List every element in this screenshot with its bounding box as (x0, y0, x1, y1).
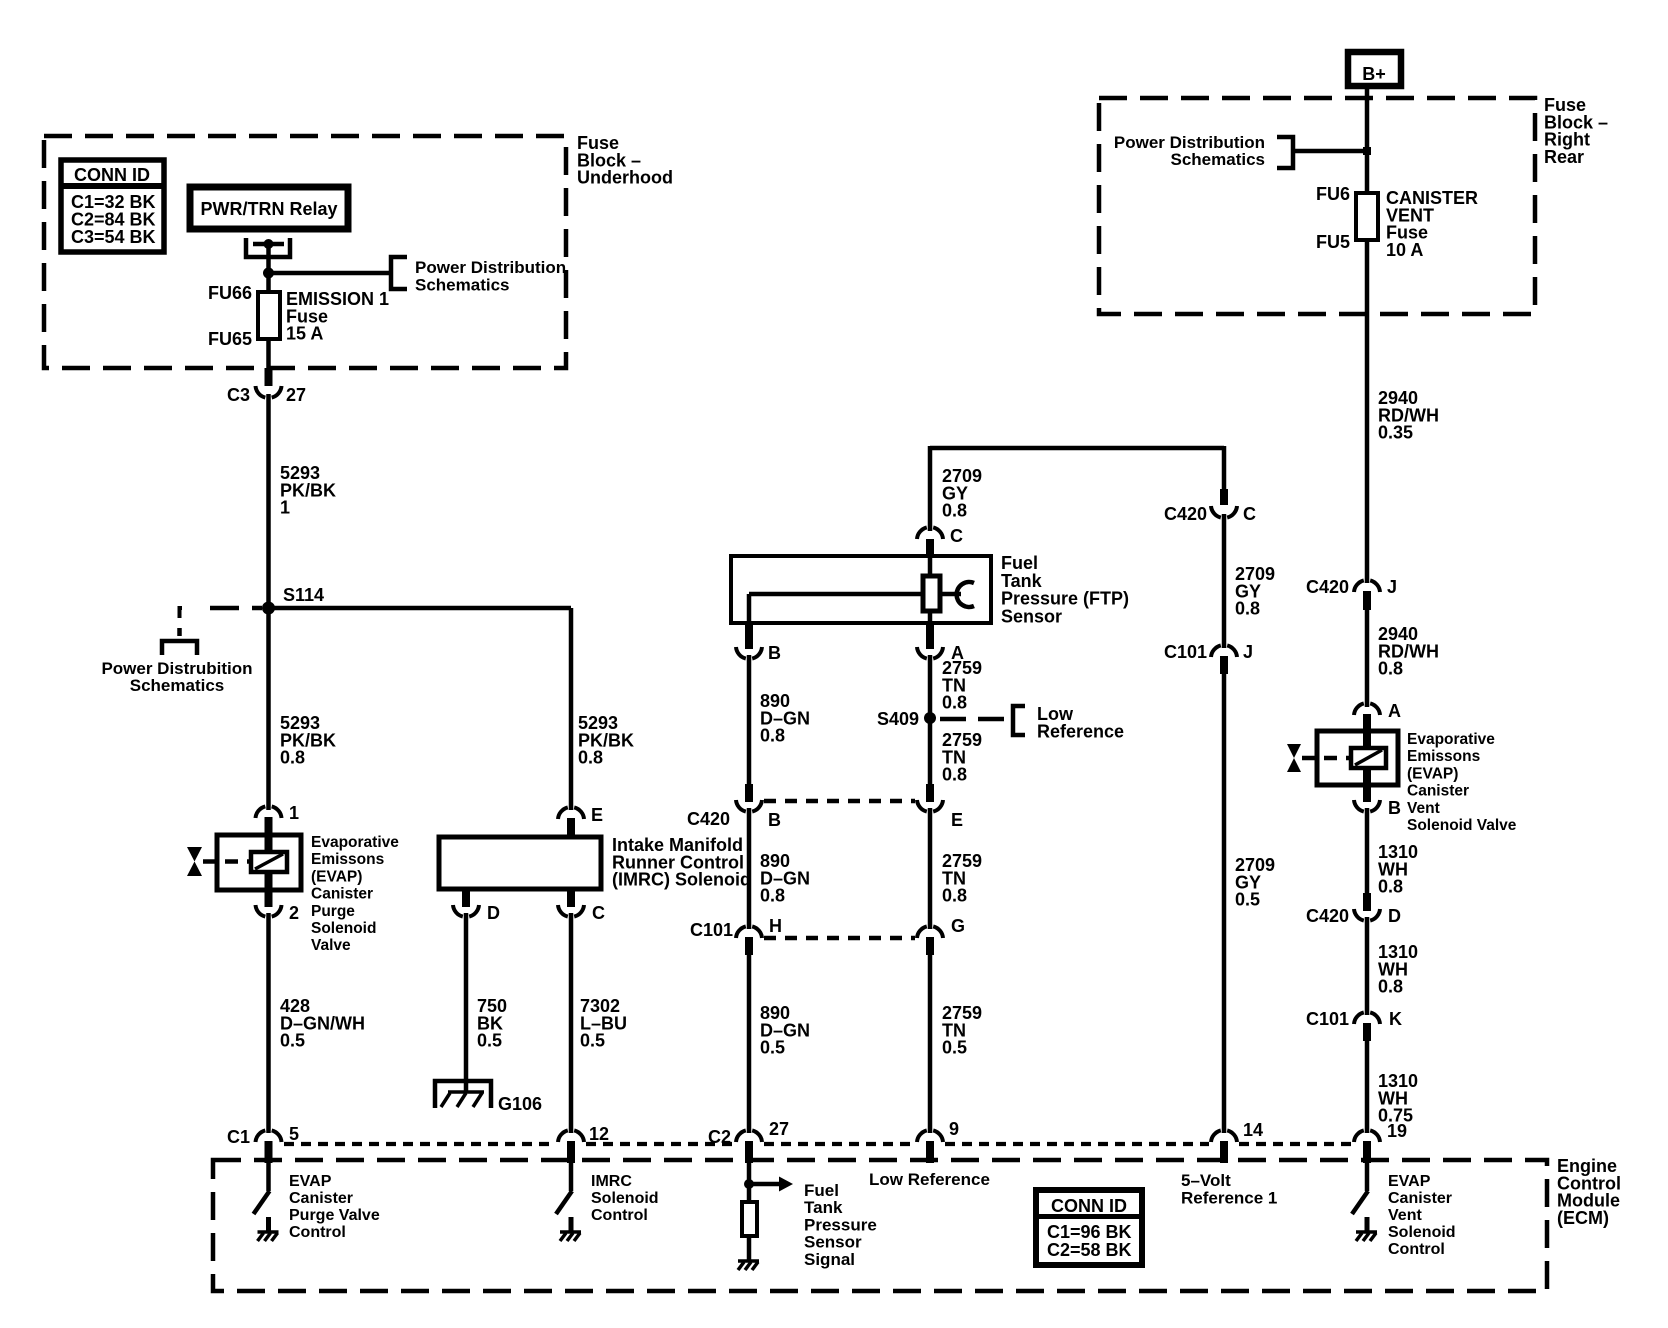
svg-text:0.8: 0.8 (280, 748, 305, 768)
svg-text:J: J (1387, 577, 1397, 597)
ECM driver switch: IMRC solenoid control (569, 1163, 574, 1191)
fuse FU65/FU66: EMISSION 1 Fuse 15 A (258, 292, 280, 339)
connector pin D (IMRC solenoid) (462, 889, 470, 907)
svg-text:0.5: 0.5 (580, 1031, 605, 1051)
in-line connector C101 G (917, 926, 943, 938)
svg-text:B: B (1388, 798, 1401, 818)
svg-text:S409: S409 (877, 709, 919, 729)
svg-text:IMRC: IMRC (591, 1173, 632, 1190)
connector pin 1 (EVAP purge valve) (256, 806, 282, 818)
wire: C420 B to C101 H (747, 808, 752, 929)
svg-text:Power Distribution: Power Distribution (415, 258, 566, 277)
wire: B+ into fuse block (1365, 89, 1370, 193)
svg-text:C1=96 BK: C1=96 BK (1047, 1222, 1132, 1242)
svg-text:27: 27 (769, 1119, 789, 1139)
ground (FTP signal) (738, 1259, 759, 1263)
svg-text:FU5: FU5 (1316, 232, 1350, 252)
wire: junction to power distribution bracket (269, 271, 392, 276)
solenoid L1: EVAP canister purge solenoid valve (217, 835, 301, 890)
connector pin 2 (EVAP purge valve) (265, 890, 273, 907)
svg-text:Low Reference: Low Reference (869, 1170, 990, 1189)
wire: pin B down to C420 B (747, 655, 752, 786)
splice S114 (262, 602, 275, 615)
svg-text:C2=58 BK: C2=58 BK (1047, 1240, 1132, 1260)
svg-text:G106: G106 (498, 1094, 542, 1114)
CONN ID table (underhood) (61, 160, 164, 252)
svg-text:Canister: Canister (289, 1190, 353, 1207)
svg-text:C1: C1 (227, 1127, 250, 1147)
svg-text:1: 1 (280, 498, 290, 518)
svg-text:C101: C101 (1306, 1009, 1349, 1029)
svg-text:5: 5 (289, 1124, 299, 1144)
svg-text:(EVAP): (EVAP) (1407, 765, 1458, 782)
svg-text:0.8: 0.8 (1235, 599, 1260, 619)
svg-text:0.8: 0.8 (1378, 877, 1403, 897)
wire: pin A to S409 (928, 655, 933, 718)
wire: S114 branch to IMRC (right then down) (269, 606, 572, 611)
svg-text:C: C (950, 526, 963, 546)
svg-text:Evaporative: Evaporative (1407, 731, 1495, 748)
svg-text:0.8: 0.8 (942, 765, 967, 785)
svg-text:0.8: 0.8 (942, 501, 967, 521)
svg-text:(ECM): (ECM) (1557, 1208, 1609, 1228)
solenoid L3: EVAP canister vent solenoid valve (1317, 731, 1398, 785)
svg-text:C: C (1243, 504, 1256, 524)
svg-text:Solenoid: Solenoid (311, 920, 376, 937)
connector pin 19 (ECM) (1354, 1130, 1380, 1142)
svg-text:Schematics: Schematics (1171, 150, 1266, 169)
in-line connector C420 C (1220, 489, 1228, 505)
svg-text:B: B (768, 810, 781, 830)
svg-text:C3=54 BK: C3=54 BK (71, 227, 156, 247)
svg-text:27: 27 (286, 385, 306, 405)
wire: top rail to 5-volt reference (930, 446, 1224, 451)
wire: fuse to C3 connector (266, 339, 271, 371)
svg-text:Underhood: Underhood (577, 168, 673, 188)
svg-text:Sensor: Sensor (1001, 606, 1062, 626)
in-line connector C420 B (745, 784, 753, 802)
dashed connector line C101 (H-G row) (764, 936, 915, 941)
connector C2 pin 27 (ECM) (736, 1130, 762, 1142)
connector pin C (FTP sensor) (917, 527, 943, 539)
ECM driver switch: EVAP canister vent solenoid control (1365, 1163, 1370, 1191)
svg-text:C101: C101 (1164, 642, 1207, 662)
svg-text:CONN ID: CONN ID (1051, 1196, 1127, 1216)
dashed wire: S114 to power distribution bracket (180, 608, 183, 618)
relay contact terminal symbol under PWR/TRN relay (246, 238, 290, 257)
svg-text:Rear: Rear (1544, 147, 1584, 167)
svg-text:J: J (1243, 642, 1253, 662)
svg-text:Valve: Valve (311, 937, 351, 954)
svg-text:Purge: Purge (311, 903, 355, 920)
svg-text:E: E (591, 805, 603, 825)
connector pin A (FTP sensor) (926, 623, 934, 649)
svg-text:15 A: 15 A (286, 324, 323, 344)
relay K: PWR/TRN Relay box (190, 187, 348, 229)
svg-text:D: D (487, 903, 500, 923)
svg-text:(IMRC) Solenoid: (IMRC) Solenoid (612, 870, 751, 890)
svg-text:1: 1 (289, 803, 299, 823)
FTP sensor internal resistor wire (749, 592, 923, 597)
svg-text:0.8: 0.8 (942, 886, 967, 906)
svg-text:K: K (1389, 1009, 1402, 1029)
wire: pin C to ECM C1 pin 12 (569, 913, 574, 1133)
svg-text:C420: C420 (1164, 504, 1207, 524)
svg-text:PWR/TRN Relay: PWR/TRN Relay (200, 199, 337, 219)
connector C3 pin 27 (265, 368, 273, 386)
wire: bracket to B+ feed wire (1293, 149, 1367, 154)
svg-text:Signal: Signal (804, 1250, 855, 1269)
wire: C420 J to vent valve pin A (1365, 609, 1370, 707)
dashed connector line C420 (B-E row) (764, 799, 915, 804)
connector pin E (IMRC solenoid) (558, 807, 584, 819)
svg-text:C: C (592, 903, 605, 923)
fuse FU5/FU6: CANISTER VENT Fuse 10 A (1356, 193, 1378, 240)
svg-text:12: 12 (589, 1124, 609, 1144)
svg-text:G: G (951, 916, 965, 936)
svg-text:EVAP: EVAP (289, 1173, 332, 1190)
svg-text:Solenoid Valve: Solenoid Valve (1407, 817, 1517, 834)
svg-text:Emissons: Emissons (311, 851, 384, 868)
svg-text:Vent: Vent (1407, 800, 1440, 817)
svg-text:CONN ID: CONN ID (74, 165, 150, 185)
wire: C101 G to ECM pin 9 (928, 953, 933, 1133)
ground G106 (435, 1081, 491, 1108)
solenoid L2: IMRC solenoid box (439, 837, 601, 889)
wire: fuse to C420 J (1365, 240, 1370, 583)
svg-text:B: B (768, 643, 781, 663)
CONN ID table (ECM) (1036, 1190, 1142, 1265)
wire: C3 to S114 (266, 394, 271, 608)
svg-text:Solenoid: Solenoid (591, 1190, 659, 1207)
svg-text:Schematics: Schematics (415, 275, 510, 294)
svg-text:0.8: 0.8 (1378, 659, 1403, 679)
svg-text:Fuel: Fuel (804, 1181, 839, 1200)
solenoid coil element (EVAP vent) (1363, 732, 1371, 748)
wire: relay to junction (266, 244, 271, 273)
connector C1 pin 5 (ECM) (256, 1130, 282, 1142)
connector pin B (EVAP vent valve) (1363, 785, 1371, 802)
svg-text:0.5: 0.5 (477, 1031, 502, 1051)
svg-text:0.35: 0.35 (1378, 423, 1413, 443)
svg-text:9: 9 (949, 1119, 959, 1139)
svg-text:0.8: 0.8 (578, 748, 603, 768)
svg-text:C420: C420 (687, 809, 730, 829)
svg-text:Control: Control (289, 1224, 346, 1241)
svg-text:Reference 1: Reference 1 (1181, 1189, 1277, 1208)
wire: pin D to ground G106 (464, 913, 469, 1093)
svg-text:Sensor: Sensor (804, 1233, 862, 1252)
svg-text:0.5: 0.5 (760, 1038, 785, 1058)
svg-text:Reference: Reference (1037, 721, 1124, 741)
svg-text:0.8: 0.8 (760, 726, 785, 746)
svg-text:Emissons: Emissons (1407, 748, 1480, 765)
in-line connector C101 K (vent) (1354, 1012, 1380, 1024)
bracket: power distribution schematics (right rear) (1277, 137, 1293, 168)
bracket: power distribution schematics (underhood) (391, 257, 407, 289)
valve symbol (bowtie) EVAP vent (1287, 744, 1301, 772)
wire: C420 D to C101 K (1365, 917, 1370, 1015)
wire: S114 down to EVAP purge valve (266, 608, 271, 810)
svg-text:Canister: Canister (1407, 783, 1469, 800)
FTP sensor internal wiper element (928, 557, 933, 577)
svg-text:Evaporative: Evaporative (311, 834, 399, 851)
svg-text:5–Volt: 5–Volt (1181, 1171, 1231, 1190)
in-line connector C420 E (926, 784, 934, 802)
power feed B+ (1348, 52, 1401, 86)
in-line connector C420 D (vent) (1363, 893, 1371, 911)
connector pin 12 (ECM) (558, 1130, 584, 1142)
svg-text:D: D (1388, 906, 1401, 926)
connector pin 9 (ECM) (917, 1130, 943, 1142)
svg-text:EVAP: EVAP (1388, 1173, 1431, 1190)
svg-text:Pressure: Pressure (804, 1215, 877, 1234)
svg-text:E: E (951, 810, 963, 830)
wire: C101 H to ECM C2 pin 27 (747, 953, 752, 1133)
svg-text:0.8: 0.8 (942, 693, 967, 713)
fuse block - right rear (dashed enclosure) (1099, 98, 1535, 314)
svg-text:Purge Valve: Purge Valve (289, 1207, 380, 1224)
svg-text:14: 14 (1243, 1120, 1263, 1140)
wire: S409 to C420 E (928, 718, 933, 786)
in-line connector C101 J (1211, 645, 1237, 657)
solenoid coil element (EVAP purge) (265, 836, 273, 852)
svg-text:2: 2 (289, 903, 299, 923)
svg-text:C420: C420 (1306, 577, 1349, 597)
wire: C420 E to C101 G (928, 808, 933, 929)
svg-text:FU6: FU6 (1316, 184, 1350, 204)
svg-text:Vent: Vent (1388, 1207, 1422, 1224)
svg-text:0.5: 0.5 (942, 1038, 967, 1058)
svg-text:10 A: 10 A (1386, 240, 1423, 260)
fuse block - underhood (dashed enclosure) (44, 136, 566, 368)
svg-text:Schematics: Schematics (130, 676, 225, 695)
svg-text:C3: C3 (227, 385, 250, 405)
connector pin C (IMRC solenoid) (567, 889, 575, 907)
wire: junction to fuse FU66 (266, 273, 271, 292)
bracket: low reference (S409) (1013, 706, 1025, 735)
wire: C420 C to C101 J (1222, 514, 1227, 648)
sensor: Fuel Tank Pressure (FTP) sensor box (731, 556, 991, 623)
ECM input: fuel tank pressure sensor signal (747, 1163, 752, 1202)
svg-text:FU65: FU65 (208, 329, 252, 349)
in-line connector C420 J (vent) (1354, 580, 1380, 592)
svg-text:0.5: 0.5 (1235, 890, 1260, 910)
svg-text:C420: C420 (1306, 906, 1349, 926)
in-line connector C101 H (736, 926, 762, 938)
dashed link valve to coil (203, 859, 251, 864)
svg-text:0.5: 0.5 (280, 1031, 305, 1051)
svg-text:Canister: Canister (311, 886, 373, 903)
svg-text:H: H (769, 916, 782, 936)
svg-text:(EVAP): (EVAP) (311, 868, 362, 885)
junction (to power distribution) (263, 268, 274, 279)
wire: C101 K to ECM pin 19 (1365, 1039, 1370, 1133)
connector pin A (EVAP vent valve) (1354, 703, 1380, 715)
svg-text:Control: Control (591, 1207, 648, 1224)
svg-text:0.8: 0.8 (760, 886, 785, 906)
svg-text:C101: C101 (690, 920, 733, 940)
svg-text:0.8: 0.8 (1378, 977, 1403, 997)
svg-text:Solenoid: Solenoid (1388, 1224, 1456, 1241)
wire: C101 J to ECM pin 14 (1222, 673, 1227, 1133)
ECM driver switch: EVAP canister purge valve control (266, 1163, 271, 1191)
ECM connector row dotted line (284, 1142, 556, 1146)
wire: pin 2 to ECM C1 pin 5 (266, 913, 271, 1133)
svg-text:Canister: Canister (1388, 1190, 1452, 1207)
engine control module (dashed enclosure) (213, 1160, 1547, 1291)
splice S409 (924, 712, 936, 724)
connector pin B (FTP sensor) (745, 623, 753, 649)
svg-text:S114: S114 (283, 585, 324, 605)
svg-text:FU66: FU66 (208, 283, 252, 303)
svg-text:19: 19 (1387, 1121, 1407, 1141)
connector pin 14 (ECM) (1211, 1130, 1237, 1142)
svg-text:Control: Control (1388, 1241, 1445, 1258)
svg-text:A: A (1388, 701, 1401, 721)
svg-text:B+: B+ (1362, 64, 1386, 84)
svg-text:C2: C2 (708, 1127, 731, 1147)
dashed wire: S409 to low reference bracket (940, 717, 1009, 722)
dashed link valve to coil (vent) (1302, 756, 1351, 761)
bracket: power distrubition schematics (S114) (162, 641, 197, 655)
svg-text:Tank: Tank (804, 1198, 843, 1217)
valve symbol (bowtie) EVAP purge (187, 847, 202, 876)
resistor (FTP signal pull) (742, 1202, 757, 1236)
wire: pin B to C420 D (1365, 808, 1370, 911)
